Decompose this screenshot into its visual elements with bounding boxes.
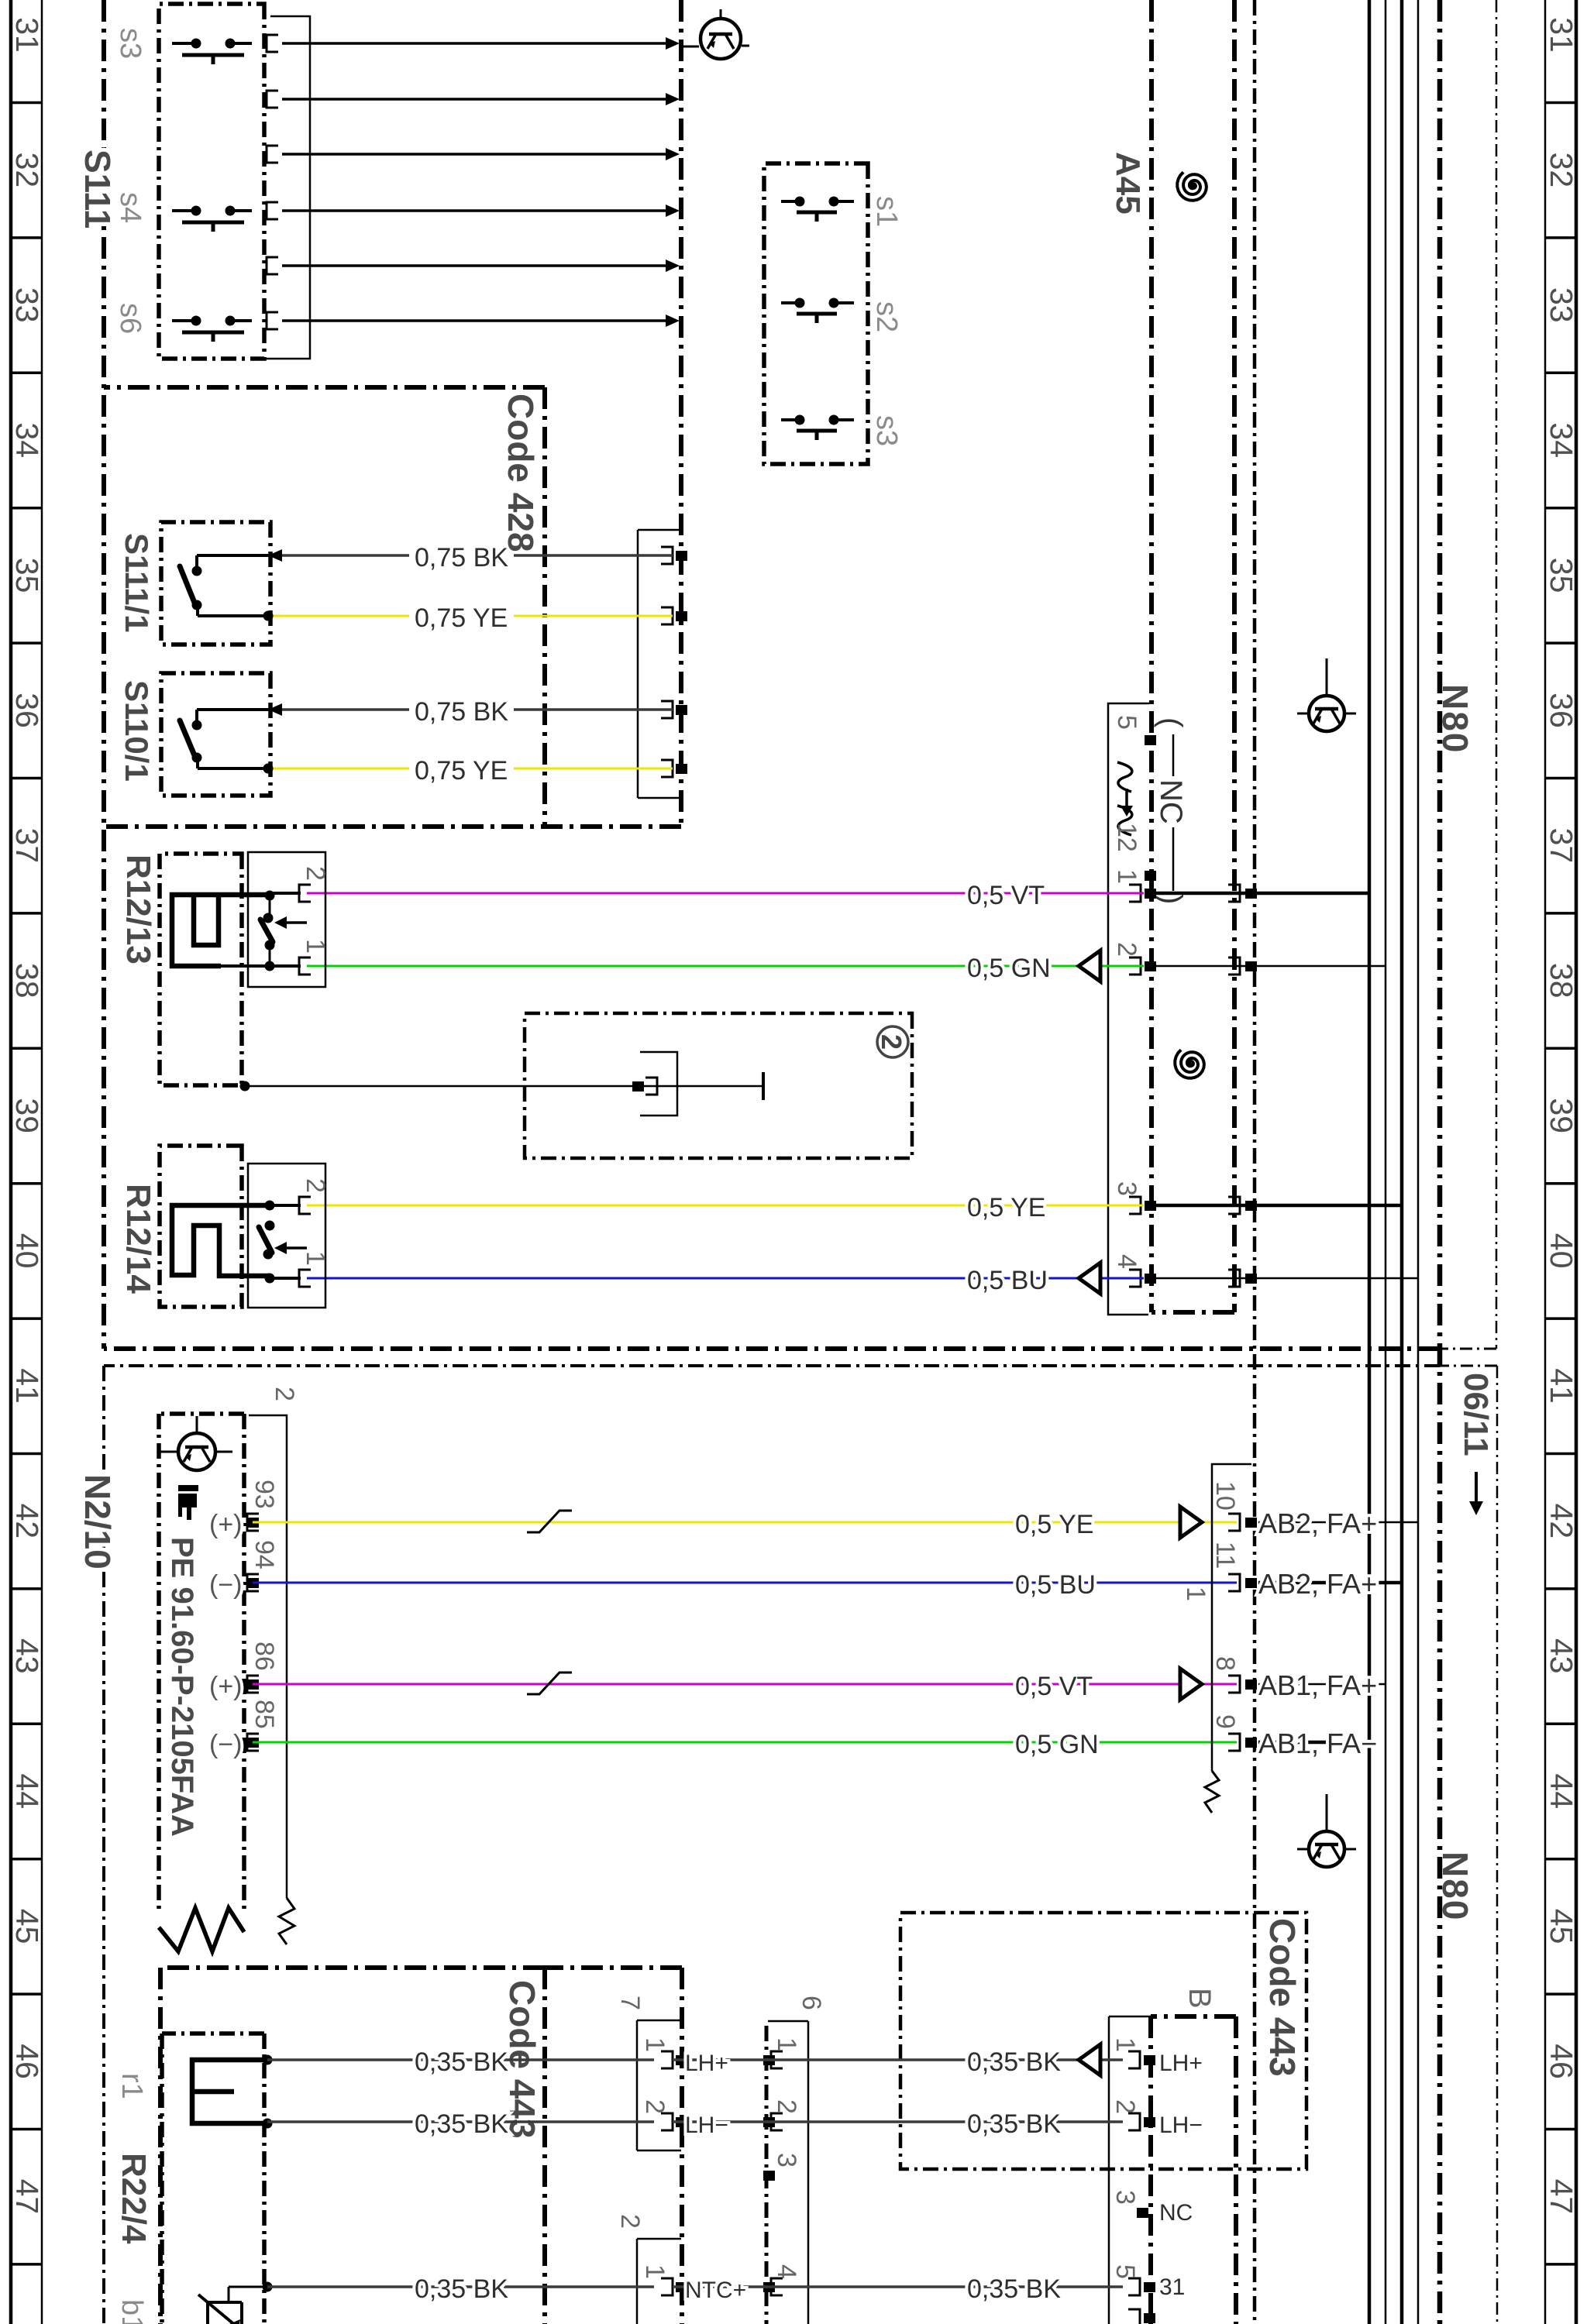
svg-text:39: 39 <box>9 1098 45 1133</box>
N2/10 pin 94 <box>247 1578 259 1588</box>
ruler cell dividers bottom <box>11 101 42 105</box>
N80 box top border <box>1437 0 1443 2324</box>
svg-text:A45: A45 <box>1109 152 1147 215</box>
R12/14 pin 2 <box>299 1197 311 1214</box>
connector 1 torn end <box>1205 1771 1219 1813</box>
svg-text:NTC+: NTC+ <box>685 2278 746 2303</box>
illumination connector outer bracket <box>640 1052 677 1116</box>
black wire AB1 FA+ (8) <box>1258 1683 1386 1686</box>
Code 428 box top edge <box>542 387 547 827</box>
button s1 contacts <box>829 197 839 207</box>
black wire BU row <box>1156 1277 1418 1280</box>
black wire AB2 FA+ (10) <box>1258 1521 1418 1524</box>
N2/10 connector 2 bracket <box>249 1415 287 1898</box>
svg-text:45: 45 <box>9 1909 45 1944</box>
svg-text:43: 43 <box>1544 1638 1579 1674</box>
black wire YE row <box>1156 1204 1402 1208</box>
R12/13 thermo switch <box>265 891 275 901</box>
A45 pin 3 <box>1145 1201 1156 1211</box>
N2/10 pin 93 <box>247 1518 259 1528</box>
connector B box bottom border <box>1148 2016 1153 2324</box>
svg-text:0,75 YE: 0,75 YE <box>415 603 508 633</box>
connector 6 pin 3 stub <box>763 2171 775 2181</box>
A45 pin 12 tick <box>1145 871 1156 881</box>
svg-text:4: 4 <box>772 2264 801 2279</box>
svg-text:44: 44 <box>1544 1773 1579 1809</box>
frame corner A top <box>1440 1348 1496 1350</box>
svg-text:37: 37 <box>1544 828 1579 864</box>
svg-text:0,35 BK: 0,35 BK <box>967 2109 1061 2139</box>
svg-text:0,5 YE: 0,5 YE <box>967 1193 1045 1222</box>
svg-text:r1: r1 <box>115 2073 148 2099</box>
circled 2 symbol <box>877 1026 908 1057</box>
svg-text:1: 1 <box>301 1251 330 1266</box>
button s4 contacts <box>225 206 236 216</box>
svg-text:1: 1 <box>1110 2037 1140 2052</box>
wire 0,75 YE (S111/1) <box>514 615 673 617</box>
A45 spiral symbol 2 <box>1175 1050 1204 1078</box>
svg-text:2: 2 <box>301 866 330 881</box>
A45 pin 5 tick <box>1145 735 1156 745</box>
svg-text:1: 1 <box>640 2264 670 2279</box>
svg-text:LH−: LH− <box>1159 2113 1203 2138</box>
R12/14 pin 1 <box>299 1270 311 1287</box>
button s3 contacts (unit 2) <box>829 415 839 425</box>
electronics icon T2 <box>1309 696 1344 731</box>
frame corner B top <box>1440 1365 1497 1367</box>
svg-text:12: 12 <box>1112 823 1141 852</box>
svg-text:LH+: LH+ <box>1159 2051 1203 2076</box>
svg-text:34: 34 <box>9 422 45 458</box>
svg-text:b1: b1 <box>115 2299 148 2324</box>
R12/14 box <box>160 1146 242 1307</box>
N80 pins section A <box>1245 889 1257 899</box>
svg-text:46: 46 <box>1544 2044 1579 2079</box>
svg-text:0,35 BK: 0,35 BK <box>967 2274 1061 2304</box>
wire 0,5 BU (AB2-) <box>253 1582 1237 1584</box>
wire 0,35 BK (LH-) <box>673 2120 1123 2123</box>
svg-text:0,75 BK: 0,75 BK <box>415 543 508 572</box>
svg-text:1: 1 <box>772 2037 801 2052</box>
wire 0,75 BK (S111/1) <box>514 554 673 557</box>
wire 0,35 BK (LH+) <box>673 2058 1123 2061</box>
svg-text:Code 428: Code 428 <box>501 394 541 552</box>
svg-text:45: 45 <box>1544 1909 1579 1944</box>
svg-text:0,5 BU: 0,5 BU <box>967 1266 1048 1295</box>
switch S111/1 box <box>161 522 270 645</box>
svg-text:R12/14: R12/14 <box>119 1184 157 1294</box>
A45 pins 5-12 range symbol <box>1117 762 1132 792</box>
svg-text:36: 36 <box>1544 693 1579 728</box>
R12/13 heater meander <box>172 895 270 966</box>
svg-text:LH−: LH− <box>685 2113 728 2138</box>
connector 1 pin 10 <box>1245 1518 1257 1528</box>
svg-text:2: 2 <box>640 2099 670 2114</box>
R12/14 connector box <box>248 1164 325 1308</box>
svg-text:S110/1: S110/1 <box>119 680 155 782</box>
N2/10 transistor icon <box>178 1433 215 1470</box>
R12/14 heater meander <box>172 1205 270 1276</box>
svg-text:2: 2 <box>1110 2099 1140 2114</box>
connector 6 pin 1 <box>763 2055 775 2065</box>
black wire AB2 FA+ (11) <box>1258 1581 1402 1585</box>
svg-text:AB1, FA+: AB1, FA+ <box>1258 1669 1377 1701</box>
svg-text:N80: N80 <box>1435 684 1475 754</box>
connector 1 pin 8 <box>1245 1679 1257 1690</box>
svg-text:9: 9 <box>1210 1714 1240 1729</box>
ruler cell dividers top <box>1545 101 1576 105</box>
B pin 1 <box>1144 2055 1155 2065</box>
S111 connector bracket <box>264 16 310 359</box>
R12/13 pin 2 <box>299 885 311 902</box>
svg-text:Code 443: Code 443 <box>1262 1918 1303 2077</box>
svg-text:0,35 BK: 0,35 BK <box>415 2047 508 2077</box>
svg-text:33: 33 <box>9 287 45 323</box>
svg-text:0,5 VT: 0,5 VT <box>967 881 1045 910</box>
svg-text:36: 36 <box>9 693 45 728</box>
wire 0,75 BK (S110/1) <box>514 708 673 711</box>
svg-text:5: 5 <box>1110 2264 1140 2279</box>
N2/10 hand icon <box>178 1485 198 1491</box>
06/11 arrow <box>1475 1472 1478 1501</box>
svg-text:0,75 BK: 0,75 BK <box>415 697 508 727</box>
svg-text:86: 86 <box>250 1642 279 1671</box>
svg-text:0,35 BK: 0,35 BK <box>967 2047 1061 2077</box>
Code 443 box upper <box>900 1913 1306 2169</box>
A45 spiral symbol 1 <box>1177 172 1207 201</box>
svg-text:34: 34 <box>1544 422 1579 458</box>
svg-text:38: 38 <box>1544 963 1579 999</box>
svg-text:s3: s3 <box>870 415 903 446</box>
N2/10 box bottom edge <box>157 1414 161 1910</box>
svg-text:3: 3 <box>1112 1181 1141 1196</box>
S111 wire arrowheads <box>666 37 680 50</box>
boundary B left riser <box>545 1965 682 1970</box>
bus wire 4 (thick) <box>1368 0 1372 2324</box>
b1 sensor wire <box>263 2282 273 2292</box>
svg-text:37: 37 <box>9 828 45 864</box>
A45 pin 1 <box>1145 889 1156 899</box>
svg-text:06/11: 06/11 <box>1457 1373 1495 1456</box>
connector 6 pin 4 <box>763 2282 775 2292</box>
black wire GN row <box>1156 965 1386 968</box>
top ruler band border <box>1575 0 1578 2324</box>
A45 box right closure <box>1152 1310 1234 1315</box>
R12/13 actuation arrow <box>287 921 307 924</box>
svg-text:46: 46 <box>9 2044 45 2079</box>
bus wire 2 (thick) <box>1400 0 1404 2324</box>
S111 wires to boundary <box>282 42 671 45</box>
illumination connector pin <box>645 1078 657 1095</box>
A45 connector bracket <box>1108 703 1149 1315</box>
svg-text:0,5 YE: 0,5 YE <box>1015 1510 1093 1539</box>
svg-text:2: 2 <box>270 1387 299 1401</box>
connector 2 pin 1 <box>676 2282 687 2292</box>
svg-text:94: 94 <box>250 1540 279 1569</box>
b1 NTC sensor symbol <box>208 2302 242 2324</box>
R12/13 box <box>160 854 242 1085</box>
svg-text:(−): (−) <box>209 1570 243 1600</box>
bus wire 3 (thin) <box>1385 0 1387 2324</box>
connector 6 pin 2 <box>763 2117 775 2127</box>
connector 1 pin 9 <box>1245 1738 1257 1748</box>
svg-text:5: 5 <box>1112 715 1141 730</box>
svg-text:3: 3 <box>772 2153 801 2168</box>
switch unit box (s1 s2 s3) <box>764 163 868 464</box>
switch S110/1 box <box>161 673 270 796</box>
direction arrow VT up <box>1180 1669 1202 1700</box>
Code 428 box left edge <box>104 385 545 390</box>
wire 0,5 YE <box>307 1205 1144 1207</box>
svg-text:NC: NC <box>1159 2200 1193 2226</box>
svg-text:s2: s2 <box>870 301 903 332</box>
A45 box bottom border <box>1149 0 1154 1312</box>
N2/10 box top edge <box>242 1414 246 1910</box>
svg-text:42: 42 <box>1544 1504 1579 1539</box>
B pin 3 stub <box>1137 2208 1148 2218</box>
frame bottom section B <box>102 1366 105 2324</box>
svg-text:8: 8 <box>1210 1656 1240 1671</box>
svg-text:AB2, FA+: AB2, FA+ <box>1258 1568 1377 1600</box>
svg-text:AB2, FA+: AB2, FA+ <box>1258 1508 1377 1539</box>
A45 pin 4 <box>1145 1274 1156 1284</box>
button s6 contacts <box>225 316 236 326</box>
section divider left (heavy) <box>104 1346 1440 1351</box>
heater R22/4 box <box>162 2033 264 2324</box>
svg-text:1: 1 <box>1181 1587 1210 1601</box>
svg-text:AB1, FA−: AB1, FA− <box>1258 1728 1377 1759</box>
wire 0,5 BU <box>307 1277 1144 1280</box>
svg-text:s1: s1 <box>870 196 903 227</box>
svg-text:1: 1 <box>301 939 330 954</box>
box with circled 2 <box>525 1013 912 1158</box>
svg-text:1: 1 <box>640 2037 670 2052</box>
A45 box top border <box>1232 0 1237 1312</box>
svg-text:44: 44 <box>9 1773 45 1809</box>
R12/14 internal wiring <box>270 1204 301 1207</box>
switch unit S111 box <box>159 4 264 359</box>
svg-text:38: 38 <box>9 963 45 999</box>
connector 1 pin 11 <box>1245 1578 1257 1588</box>
wire 0,5 GN <box>307 965 1144 968</box>
svg-text:43: 43 <box>9 1638 45 1674</box>
svg-text:0,5 VT: 0,5 VT <box>1015 1672 1093 1701</box>
A45 pin 2 <box>1145 961 1156 971</box>
svg-text:0,75 YE: 0,75 YE <box>415 756 508 786</box>
svg-text:93: 93 <box>250 1480 279 1509</box>
bottom ruler band border <box>41 0 43 2324</box>
connector 7 pin 2 <box>676 2117 687 2127</box>
svg-text:0,35 BK: 0,35 BK <box>415 2274 508 2304</box>
Code 443 box lower bottom edge <box>158 1968 163 2324</box>
direction arrow GN <box>1079 951 1100 982</box>
svg-text:s3: s3 <box>114 28 146 59</box>
svg-text:31: 31 <box>1544 17 1579 53</box>
svg-text:31: 31 <box>9 17 45 53</box>
B pin 2 <box>1144 2117 1155 2127</box>
frame bottom section A <box>102 0 106 1349</box>
svg-text:s6: s6 <box>114 303 146 334</box>
wire 0,5 VT (AB1+) <box>253 1683 1237 1686</box>
svg-text:2: 2 <box>1112 942 1141 957</box>
steering wheel boundary B <box>680 1968 684 2324</box>
section divider right <box>104 1364 1440 1367</box>
connector B box top border <box>1234 2016 1238 2324</box>
svg-text:B: B <box>1183 1988 1217 2009</box>
svg-text:(+): (+) <box>209 1510 243 1539</box>
B pin 4 (partial at page edge) <box>1144 2313 1155 2323</box>
svg-text:11: 11 <box>1210 1542 1240 1569</box>
button s3 contacts <box>225 39 236 49</box>
wire break mark VT <box>527 1673 572 1694</box>
wire R12/13 to illumination <box>240 1081 250 1092</box>
S111 pins <box>267 35 278 52</box>
steering wheel boundary A horiz <box>679 0 683 827</box>
svg-text:41: 41 <box>1544 1368 1579 1404</box>
svg-text:35: 35 <box>1544 558 1579 593</box>
connector 7 pin 1 <box>676 2055 687 2065</box>
N2/10 pin 85 <box>247 1738 259 1748</box>
svg-text:2: 2 <box>615 2214 645 2229</box>
svg-text:0,5 BU: 0,5 BU <box>1015 1570 1096 1600</box>
electronics icon T3 <box>1309 1831 1344 1867</box>
black wire AB1 FA- (9) <box>1258 1741 1369 1745</box>
svg-text:(: ( <box>1154 717 1188 728</box>
boundary pins S111/1 S110/1 <box>676 551 687 561</box>
svg-text:LH+: LH+ <box>685 2051 728 2076</box>
svg-text:2: 2 <box>772 2099 801 2114</box>
svg-text:4: 4 <box>1112 1254 1141 1269</box>
direction arrow BU <box>1079 1263 1100 1294</box>
svg-text:85: 85 <box>250 1700 279 1729</box>
svg-text:2: 2 <box>876 1034 907 1050</box>
connector 1 bracket <box>1212 1464 1251 1771</box>
svg-text:40: 40 <box>9 1233 45 1269</box>
connector corridor line <box>765 2026 769 2324</box>
svg-text:35: 35 <box>9 558 45 593</box>
svg-text:7: 7 <box>615 1996 645 2010</box>
svg-text:42: 42 <box>9 1504 45 1539</box>
Code 443 box lower left edge <box>160 1965 545 1970</box>
wire 0,75 YE (S110/1) <box>514 768 673 770</box>
svg-text:N2/10: N2/10 <box>77 1474 118 1569</box>
svg-text:1: 1 <box>1112 869 1141 884</box>
direction arrow LH+ <box>1079 2044 1100 2075</box>
bus wire 1 (thin) <box>1417 0 1420 2324</box>
connector 2 bracket <box>637 2239 681 2324</box>
R12/13 connector box <box>248 852 325 987</box>
svg-text:40: 40 <box>1544 1233 1579 1269</box>
connector B bracket <box>1109 2016 1151 2324</box>
svg-text:S111/1: S111/1 <box>119 533 155 632</box>
wire break mark YE <box>527 1511 572 1532</box>
svg-text:32: 32 <box>1544 153 1579 188</box>
R12/13 pin 1 <box>299 957 311 975</box>
N2/10 box torn right edge <box>159 1908 244 1951</box>
R12/14 actuation arrow <box>287 1246 307 1250</box>
svg-text:47: 47 <box>1544 2179 1579 2215</box>
svg-text:(+): (+) <box>209 1672 243 1701</box>
wire 0,5 VT <box>307 892 1144 895</box>
B pin 5 <box>1144 2282 1155 2292</box>
svg-text:39: 39 <box>1544 1098 1579 1133</box>
svg-text:2: 2 <box>301 1178 330 1193</box>
svg-text:0,5 GN: 0,5 GN <box>1015 1730 1099 1759</box>
svg-text:R12/13: R12/13 <box>119 854 157 964</box>
svg-text:(−): (−) <box>209 1730 243 1759</box>
wire 0,5 YE (AB2+) <box>253 1521 1237 1524</box>
svg-text:s4: s4 <box>114 192 146 223</box>
S111/1-S110/1 connector bracket <box>638 530 681 798</box>
connector B box left closure <box>1151 2014 1236 2019</box>
svg-text:31: 31 <box>1159 2274 1185 2300</box>
R12/13 internal wiring <box>268 892 301 895</box>
connector 7 bracket <box>637 2020 681 2150</box>
direction arrow YE up <box>1180 1507 1202 1538</box>
svg-text:32: 32 <box>9 153 45 188</box>
electronics icon T1 <box>701 19 741 59</box>
R12/14 thermo switch <box>265 1201 275 1211</box>
svg-text:10: 10 <box>1210 1481 1240 1511</box>
svg-text:NC: NC <box>1154 779 1188 824</box>
wire 0,35 BK (sensor) <box>673 2285 1123 2288</box>
connector 6 bracket <box>768 2021 808 2324</box>
svg-text:6: 6 <box>797 1996 826 2010</box>
svg-text:N80: N80 <box>1435 1851 1475 1921</box>
black wire VT row <box>1156 892 1369 896</box>
svg-text:0,5 GN: 0,5 GN <box>967 954 1051 983</box>
Code 443 box lower top edge <box>542 1968 547 2324</box>
svg-text:33: 33 <box>1544 287 1579 323</box>
svg-text:41: 41 <box>9 1368 45 1404</box>
frame top section A <box>1496 0 1498 1349</box>
r1 heater element <box>192 2060 267 2123</box>
steering wheel boundary A vert <box>104 824 681 829</box>
svg-text:0,35 BK: 0,35 BK <box>415 2109 508 2139</box>
frame top section B <box>1496 1366 1499 2324</box>
N80 box bottom border <box>1253 0 1257 2324</box>
button s2 contacts <box>829 298 839 308</box>
svg-text:PE 91.60-P-2105FAA: PE 91.60-P-2105FAA <box>165 1537 199 1837</box>
wire 0,5 GN (AB1-) <box>253 1741 1237 1744</box>
svg-text:): ) <box>1154 894 1188 904</box>
svg-text:S111: S111 <box>77 150 118 229</box>
N2/10 pin 86 <box>247 1679 259 1690</box>
N2/10 box left edge <box>159 1411 244 1416</box>
svg-text:3: 3 <box>1110 2190 1140 2205</box>
svg-text:R22/4: R22/4 <box>115 2153 153 2244</box>
svg-text:47: 47 <box>9 2179 45 2215</box>
N2/10 bracket torn end <box>279 1898 294 1944</box>
